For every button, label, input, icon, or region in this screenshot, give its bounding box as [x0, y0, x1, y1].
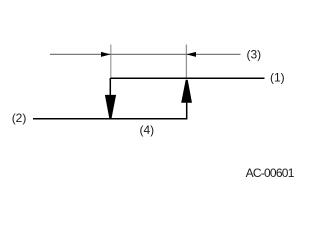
line (1)	[111, 77, 265, 79]
arrowhead left-pointing	[186, 52, 196, 57]
tick mark left	[110, 45, 112, 79]
up arrow	[181, 80, 192, 103]
svg-text:(1): (1)	[270, 71, 285, 85]
down arrow	[109, 78, 111, 96]
svg-text:AC-00601: AC-00601	[246, 166, 295, 180]
tick mark right	[185, 45, 187, 79]
svg-text:(2): (2)	[12, 111, 27, 125]
dimension line (3)	[50, 53, 241, 55]
line (2)	[33, 118, 187, 120]
arrowhead right-pointing	[101, 52, 111, 57]
svg-text:(3): (3)	[247, 47, 262, 61]
svg-text:(4): (4)	[140, 123, 155, 137]
